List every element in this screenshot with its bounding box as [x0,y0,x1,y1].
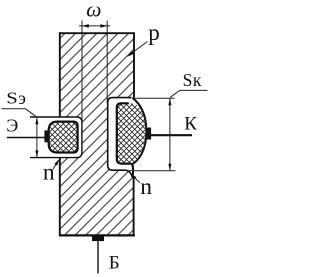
slab left edge lower segment [59,157,61,235]
base metal contact bar [92,236,104,241]
collector outer contour white fill [108,98,147,178]
omega arrow right [100,24,107,28]
Se arrow up [35,117,38,124]
Se arrow down [35,150,38,157]
n left leader with arrow [53,164,57,170]
slab bottom edge [59,234,135,236]
svg-text:Э: Э [6,116,18,136]
omega dimension line [79,25,110,27]
n right leader with arrow [135,178,140,183]
Sk arrow down [168,164,171,171]
svg-text:S: S [6,89,18,108]
emitter outer contour stroke (top/right/bottom, left open with extension lines) [30,117,82,158]
base region (p) slab hatched fill [60,33,134,235]
p leader line with arrow [132,42,148,54]
omega extension line right (collector junction plane) [106,21,108,104]
emitter metal contact [44,130,48,142]
omega extension line left (emitter junction plane) [81,21,83,121]
collector junction arc (shared dot boundary) [132,98,146,178]
Se leader underline [1,109,37,117]
Sk dimension vertical line [169,98,171,171]
svg-text:n: n [43,160,55,186]
slab left edge upper segment [59,32,61,117]
slab right edge lower segment [133,177,135,235]
collector metal contact [146,128,151,140]
Sk arrow up [168,98,171,105]
svg-text:К: К [184,114,197,135]
Sk dimension extension bottom [129,170,176,172]
Se dimension vertical line [36,117,38,157]
Sk leader underline [170,90,207,97]
slab top edge [60,32,134,34]
svg-text:p: p [148,20,160,45]
collector wire [151,134,192,136]
svg-text:Sк: Sк [183,70,202,90]
omega arrow left [82,24,89,28]
emitter wire [7,137,46,139]
svg-text:э: э [18,88,26,108]
svg-text:n: n [140,174,152,200]
collector dot edges stroke (top, left, bottom) [117,103,132,163]
emitter outer contour (n junction) white fill [30,117,82,158]
emitter dot (n+, cross-hatched) [49,122,78,153]
collector dot (n, cross-hatched) [117,103,146,163]
slab right edge upper segment [133,32,135,97]
collector outer contour stroke [108,98,133,178]
base wire [97,241,99,273]
Sk dimension extension top [133,97,175,99]
svg-text:ω: ω [86,0,101,22]
svg-text:Б: Б [109,252,120,273]
